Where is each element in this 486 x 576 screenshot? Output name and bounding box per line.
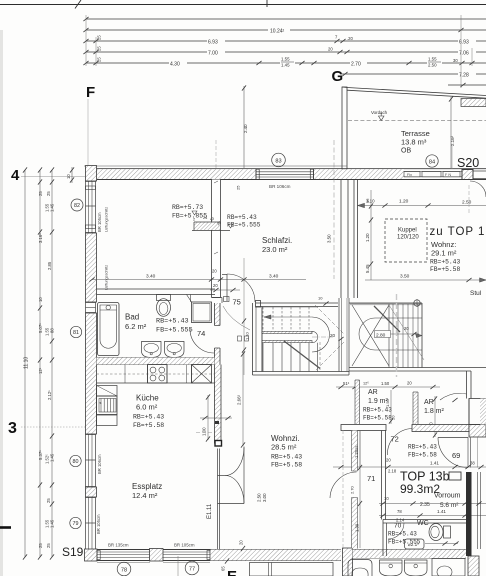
svg-text:5.37⁵: 5.37⁵ xyxy=(38,450,43,460)
door 74 Bad xyxy=(190,329,214,353)
stair1 lower flight treads xyxy=(262,307,318,372)
position circle 77 xyxy=(185,561,199,575)
svg-text:2.70: 2.70 xyxy=(351,61,361,67)
position circle 81 xyxy=(70,326,81,337)
svg-text:1.55: 1.55 xyxy=(281,57,290,62)
double swing door Essplatz-Wohnz xyxy=(218,447,245,550)
svg-text:71: 71 xyxy=(367,474,375,483)
AR2 door arc xyxy=(440,393,467,402)
thin wall lines right edge xyxy=(478,472,481,549)
left dim chain x25 (11.10) xyxy=(23,167,30,559)
top dimension line 5 (4.30 / 1.55 1.45 / 2.70 / 1.55 2.50 30) xyxy=(83,56,486,68)
top sheet border line xyxy=(0,0,486,9)
svg-text:20: 20 xyxy=(407,381,412,386)
svg-text:10: 10 xyxy=(384,496,389,501)
svg-text:G: G xyxy=(332,68,344,85)
svg-text:E: E xyxy=(227,568,237,576)
stair2 axis dashed xyxy=(396,294,398,377)
svg-text:10: 10 xyxy=(38,297,43,302)
Schlafzi labels xyxy=(262,236,292,254)
svg-text:84: 84 xyxy=(429,159,435,165)
dim ticks near door 75 xyxy=(210,283,240,292)
lower unit tub xyxy=(348,560,372,576)
svg-text:3.16⁵: 3.16⁵ xyxy=(38,233,43,243)
terrace dim 2.16 vertical xyxy=(449,96,455,168)
svg-text:1.20: 1.20 xyxy=(399,199,409,205)
boiler with grille xyxy=(97,396,118,415)
svg-text:2.12⁵: 2.12⁵ xyxy=(47,390,52,400)
svg-text:1.45: 1.45 xyxy=(50,519,55,528)
stair2 enclosure xyxy=(349,303,486,371)
Kuppel dashed box xyxy=(385,219,427,262)
svg-text:20: 20 xyxy=(239,540,244,545)
svg-text:RB=+5.43: RB=+5.43 xyxy=(133,414,164,421)
bottom wall pier xyxy=(150,549,164,562)
position circle 84 xyxy=(426,155,438,167)
terrace room label xyxy=(401,129,430,155)
svg-text:E1.11: E1.11 xyxy=(207,503,213,519)
Bad top wall xyxy=(97,289,216,295)
corridor 71 left wall upper segment xyxy=(352,431,358,472)
svg-text:FB=+5.555: FB=+5.555 xyxy=(227,222,261,229)
svg-text:AR: AR xyxy=(368,389,378,396)
step tiny dims xyxy=(193,216,222,226)
svg-text:28.5 m²: 28.5 m² xyxy=(271,443,297,452)
left wall pier block xyxy=(86,487,97,497)
dim line y467 TOP13b xyxy=(333,458,486,474)
svg-text:S19: S19 xyxy=(62,545,84,559)
bathtub xyxy=(98,303,120,356)
kitchen counter top row xyxy=(97,365,215,384)
E111 rotated label xyxy=(207,503,213,519)
svg-text:BR 106cm: BR 106cm xyxy=(269,184,291,189)
extension line column x461 xyxy=(460,15,462,88)
svg-text:4: 4 xyxy=(11,167,20,184)
svg-text:RB=+5.43: RB=+5.43 xyxy=(156,318,189,326)
terrace dashed line (Vordach outline) xyxy=(348,120,486,122)
small pier rect near Vorraum xyxy=(449,472,461,480)
extension line x244 corridor xyxy=(238,258,249,375)
extension line column x96 xyxy=(95,37,97,66)
svg-text:29.1 m²: 29.1 m² xyxy=(431,249,457,258)
svg-text:3: 3 xyxy=(8,420,17,437)
svg-text:77: 77 xyxy=(189,566,195,572)
svg-text:2.85: 2.85 xyxy=(47,261,52,270)
svg-text:.20: .20 xyxy=(347,36,353,41)
svg-text:82: 82 xyxy=(74,203,80,209)
dim line y280 (3.50) xyxy=(365,274,486,283)
svg-text:7.06: 7.06 xyxy=(459,50,469,56)
svg-text:F N: F N xyxy=(445,173,451,177)
solid dark wall right (shaft) xyxy=(466,472,472,556)
axis dash x343 lower xyxy=(342,430,344,548)
stair2 walking loop xyxy=(359,318,422,350)
svg-text:20: 20 xyxy=(330,333,336,338)
left dim chain x52 xyxy=(45,167,55,559)
stair1 dashed diagonals xyxy=(315,305,344,372)
top wall fix windows xyxy=(404,172,462,178)
Kueche labels xyxy=(133,394,164,430)
svg-text:2.35: 2.35 xyxy=(420,502,430,508)
svg-text:1.50: 1.50 xyxy=(385,398,390,407)
Schlafzi bottom dim line xyxy=(89,269,306,282)
lower unit basin 1 xyxy=(380,560,403,576)
svg-text:S20: S20 xyxy=(457,156,479,170)
AR zone top dim line y387 xyxy=(336,381,440,390)
position circle 82 xyxy=(71,199,83,211)
svg-text:RB=+5.43: RB=+5.43 xyxy=(408,444,437,451)
bottom wall pier tall (x343) xyxy=(343,548,353,576)
stair1 upper flight dashed treads xyxy=(262,307,318,331)
grid row 3 dotted line xyxy=(21,426,96,428)
svg-text:Fix: Fix xyxy=(407,173,412,177)
svg-text:1.45: 1.45 xyxy=(50,203,55,212)
svg-text:F: F xyxy=(86,84,95,101)
svg-text:RB=+5.43: RB=+5.43 xyxy=(271,454,302,461)
top exterior wall band xyxy=(85,169,486,180)
svg-text:75: 75 xyxy=(233,298,241,307)
svg-text:2.50: 2.50 xyxy=(257,493,262,502)
svg-text:FB=+5.58: FB=+5.58 xyxy=(408,452,437,459)
stair2 thick cut diagonal xyxy=(374,306,400,332)
svg-text:RB=+5.43: RB=+5.43 xyxy=(430,259,460,266)
svg-text:10: 10 xyxy=(66,174,71,179)
section mark S19 xyxy=(62,545,84,559)
svg-text:2.50: 2.50 xyxy=(462,200,472,206)
Bad vent diagonal xyxy=(187,295,192,303)
svg-text:1.50: 1.50 xyxy=(381,381,390,386)
WC toilet xyxy=(429,524,451,541)
svg-text:3.40: 3.40 xyxy=(146,274,156,280)
door 75 Schlafzi entry xyxy=(222,274,255,302)
svg-text:1.8 m²: 1.8 m² xyxy=(424,408,445,415)
svg-text:10: 10 xyxy=(318,296,323,301)
basin 2 Bad xyxy=(165,342,185,358)
svg-text:88: 88 xyxy=(50,328,55,333)
svg-text:25: 25 xyxy=(38,543,43,548)
Essplatz labels xyxy=(132,482,162,500)
door 72 RB FB labels xyxy=(408,444,437,459)
bottom wall hatch Wohnz segment xyxy=(210,550,341,561)
corridor 71 left wall lower segment xyxy=(352,498,358,549)
svg-text:⌀2.1⁰: ⌀2.1⁰ xyxy=(408,542,419,547)
svg-text:74: 74 xyxy=(197,329,205,338)
stair1 top wall xyxy=(256,301,339,308)
svg-text:FB=+5.58: FB=+5.58 xyxy=(133,422,164,429)
svg-text:3.50: 3.50 xyxy=(327,234,332,243)
svg-text:1.55: 1.55 xyxy=(428,57,437,62)
fridge drawer with diagonal xyxy=(97,386,118,397)
AR1 labels xyxy=(363,389,392,422)
svg-text:120/120: 120/120 xyxy=(397,235,419,241)
lower unit basin 2 xyxy=(405,560,428,576)
top dimension line 4 (7.00 / 20 / 7.06) xyxy=(83,47,486,57)
svg-text:51⁶: 51⁶ xyxy=(343,381,350,386)
svg-text:BR 105cm: BR 105cm xyxy=(174,543,195,548)
svg-text:12⁵: 12⁵ xyxy=(38,367,43,374)
stair2 dim 2.80 with box xyxy=(375,326,423,338)
svg-text:FB=+5.58: FB=+5.58 xyxy=(271,462,302,469)
corridor-Bad wall upper piece xyxy=(215,303,221,326)
AR vertical dim x391 xyxy=(385,390,396,424)
grid column label F xyxy=(86,84,95,101)
basin 1 Bad xyxy=(142,342,162,358)
stair1 walking line with arrow xyxy=(264,315,312,319)
svg-text:FB=+5.855: FB=+5.855 xyxy=(172,213,207,220)
grid column label G xyxy=(332,68,348,85)
door 69 jamb lines xyxy=(468,438,478,468)
zu TOP1 room data xyxy=(430,240,460,273)
door 69 xyxy=(438,438,468,468)
svg-text:1.10: 1.10 xyxy=(245,331,250,340)
stove 4 burners xyxy=(148,365,168,384)
svg-text:65: 65 xyxy=(221,566,226,571)
svg-text:2.18: 2.18 xyxy=(388,469,397,474)
position circle 79 xyxy=(70,517,81,528)
svg-text:s: s xyxy=(100,401,102,405)
svg-text:20: 20 xyxy=(212,269,217,274)
svg-text:13.8 m³: 13.8 m³ xyxy=(401,138,427,147)
black margin tick bottom left xyxy=(0,526,11,529)
svg-text:25: 25 xyxy=(97,35,102,40)
svg-text:25: 25 xyxy=(354,445,359,450)
svg-text:1.41: 1.41 xyxy=(430,461,439,466)
walking line through door 75 xyxy=(223,306,250,330)
left wall window W4 (Essplatz BR105) xyxy=(86,497,102,549)
svg-text:3.50: 3.50 xyxy=(400,274,410,280)
left wall hatch segment B xyxy=(86,313,97,434)
stair1 bottom wall xyxy=(253,372,350,376)
bottom right wall hatch to edge xyxy=(468,556,479,576)
svg-text:WC: WC xyxy=(417,520,429,527)
terrace left wall xyxy=(342,87,347,170)
svg-text:2.66⁵: 2.66⁵ xyxy=(237,394,242,405)
section mark S20 xyxy=(457,156,479,170)
svg-text:69: 69 xyxy=(452,451,460,460)
svg-text:25: 25 xyxy=(46,191,51,196)
left wall window W1 (Schlafzi BR105) xyxy=(86,181,96,233)
RB FB labels right of wall xyxy=(227,214,261,229)
Bad labels xyxy=(125,313,193,335)
Wohnz door arc from corridor 71 xyxy=(330,472,357,498)
svg-text:1.41: 1.41 xyxy=(437,509,446,514)
wall step detail with hatch near RB text xyxy=(192,222,230,231)
stair1 left wall xyxy=(253,303,263,375)
dim line y515 xyxy=(379,509,486,523)
stair1 flight edge bands xyxy=(262,331,318,342)
svg-text:RB=+5.73: RB=+5.73 xyxy=(172,204,203,211)
grid row label 3 xyxy=(8,420,17,437)
lower unit right counter xyxy=(432,559,465,576)
AR bottom wall band left xyxy=(341,425,386,431)
svg-text:81: 81 xyxy=(73,330,79,336)
lower unit left vertical dim line xyxy=(178,556,229,576)
svg-text:20: 20 xyxy=(404,326,409,331)
wall between 71 and 72 corridors xyxy=(382,431,386,520)
position circle 83 xyxy=(272,153,286,167)
WC left wall xyxy=(383,520,387,557)
dim line y503 xyxy=(379,496,486,508)
dishwasher X box xyxy=(192,365,212,384)
svg-text:10.24²: 10.24² xyxy=(270,28,285,34)
svg-text:Schlafzi.: Schlafzi. xyxy=(262,236,292,245)
terrace dim 2.40 vertical xyxy=(242,85,248,168)
WC dim line small xyxy=(425,541,459,545)
svg-text:BR 135cm: BR 135cm xyxy=(108,543,129,548)
svg-text:25: 25 xyxy=(46,498,51,503)
interior wall Schlafzi-corridor x211-221 xyxy=(212,180,221,298)
svg-text:38: 38 xyxy=(470,461,475,466)
WC top wall xyxy=(383,520,466,524)
svg-text:80: 80 xyxy=(73,459,79,465)
left wall window W2 (Bad) xyxy=(86,302,96,313)
svg-text:Lüftungsschlitz: Lüftungsschlitz xyxy=(105,207,109,232)
left wall rotated window texts xyxy=(97,207,109,232)
corridor 71 inner dim xyxy=(354,431,361,468)
axis dash at S20 xyxy=(451,145,453,169)
washer box in niche xyxy=(192,302,212,323)
Wohnz labels xyxy=(271,434,302,469)
right side wall upper thin xyxy=(467,371,472,399)
svg-text:3.00: 3.00 xyxy=(262,493,267,502)
bottom wall window W6 (BR105) xyxy=(163,543,210,560)
Bad-Kueche divider wall xyxy=(97,358,215,365)
WC basin with label xyxy=(405,539,425,549)
svg-text:FB=+5.555: FB=+5.555 xyxy=(156,327,193,335)
grid axis F vertical line xyxy=(87,99,89,165)
svg-text:25: 25 xyxy=(46,543,51,548)
svg-text:4.30: 4.30 xyxy=(170,61,180,67)
svg-text:6.93: 6.93 xyxy=(459,39,469,45)
svg-text:Küche: Küche xyxy=(136,394,159,403)
svg-text:78: 78 xyxy=(121,567,127,573)
top dimension line 3 (6.93 / 7 20 / 6.93) xyxy=(83,35,486,46)
svg-text:RB=+5.43: RB=+5.43 xyxy=(388,531,417,538)
eave line above top wall xyxy=(84,165,347,167)
bottom wall right section xyxy=(353,550,467,559)
dim 1.00 door Kueche xyxy=(196,394,232,441)
svg-text:6.2 m²: 6.2 m² xyxy=(125,322,147,331)
left wall window W3 (Kueche BR106) xyxy=(86,434,103,487)
svg-text:16: 16 xyxy=(365,198,370,203)
grid row label 4 xyxy=(11,167,20,184)
svg-text:20: 20 xyxy=(328,47,333,52)
svg-text:BR 105cm: BR 105cm xyxy=(96,514,101,534)
left dim chain x72 short xyxy=(66,167,74,183)
AR bottom wall band mid xyxy=(412,425,469,432)
right niche at x469 xyxy=(469,399,486,425)
svg-text:Stul: Stul xyxy=(470,290,482,297)
svg-text:25: 25 xyxy=(97,57,102,62)
svg-text:Lüftungsschlitz: Lüftungsschlitz xyxy=(105,265,109,290)
electric mark FM on wall xyxy=(215,421,219,424)
bottom sill lines xyxy=(97,562,210,564)
svg-text:RB=+5.43: RB=+5.43 xyxy=(227,214,257,221)
door swing at top right (terrace access) xyxy=(470,181,486,197)
double wall right of Schlafzi x341-357 xyxy=(341,180,358,298)
Vordach label and flag xyxy=(371,110,388,121)
top dimension line 1 xyxy=(83,17,486,21)
svg-text:6.93: 6.93 xyxy=(208,39,218,45)
TOP 13b main label xyxy=(400,470,450,497)
svg-text:11.10: 11.10 xyxy=(24,357,30,369)
Essplatz-Wohnz wall x215-221 xyxy=(215,365,222,444)
svg-text:2.40: 2.40 xyxy=(243,124,248,133)
position circle 80 xyxy=(70,455,81,466)
axis line between F and G (dashed) xyxy=(215,140,217,168)
dim x243 vertical 2.66 xyxy=(237,351,246,447)
lower unit kitchen counter xyxy=(250,563,334,576)
svg-text:78: 78 xyxy=(397,509,402,514)
WC door 70 arc xyxy=(388,523,404,539)
zu TOP 1 label xyxy=(430,226,486,238)
svg-text:1.00: 1.00 xyxy=(202,427,207,436)
svg-text:25: 25 xyxy=(38,191,43,196)
corridor dim line x360 xyxy=(354,431,362,549)
stair1 U-turn walking arc xyxy=(312,317,333,352)
rotated 25 labels of top block xyxy=(97,35,102,62)
stair2 X diagonals xyxy=(352,305,424,366)
left dim chain x40 xyxy=(38,167,43,559)
svg-text:2.50: 2.50 xyxy=(428,63,437,68)
stair2 top edge thick gray xyxy=(349,303,422,304)
extension line column x472 xyxy=(471,48,473,66)
AR2 labels xyxy=(424,399,445,415)
stair2 treads xyxy=(389,304,418,368)
extension line column x86 xyxy=(85,15,87,66)
left exterior wall - corner block top xyxy=(86,166,97,182)
svg-text:Vordach: Vordach xyxy=(371,110,388,115)
svg-text:5.6 m²: 5.6 m² xyxy=(440,502,459,509)
svg-text:6.0 m²: 6.0 m² xyxy=(136,403,158,412)
toilet Bad xyxy=(157,295,171,317)
top dimension line 2 (10.24) xyxy=(83,25,486,34)
svg-text:FB=+5.58: FB=+5.58 xyxy=(363,415,392,422)
grid row 4 line xyxy=(21,176,85,178)
svg-text:3.40: 3.40 xyxy=(269,274,279,280)
AR bottom wall right hatch xyxy=(469,425,486,438)
top wall right window to edge xyxy=(473,171,486,179)
svg-text:70: 70 xyxy=(394,523,402,530)
svg-text:5.45: 5.45 xyxy=(365,264,370,273)
dim 20 bottom of wall xyxy=(239,540,246,551)
svg-text:AR: AR xyxy=(424,399,434,406)
Schlafzi axis dashed x334 xyxy=(236,140,335,279)
top wall pier block right xyxy=(462,170,473,180)
svg-text:2.80: 2.80 xyxy=(376,332,386,338)
svg-text:Kuppel: Kuppel xyxy=(398,228,417,234)
svg-text:83: 83 xyxy=(275,158,281,164)
top dimension line 7 short xyxy=(448,83,486,87)
svg-text:7.28: 7.28 xyxy=(459,72,469,78)
label 71 xyxy=(367,474,375,483)
svg-text:20: 20 xyxy=(391,415,396,420)
bold grid letter at bottom edge (clipped) xyxy=(227,568,237,576)
svg-text:5.07⁵: 5.07⁵ xyxy=(38,323,43,333)
svg-text:20: 20 xyxy=(213,283,218,288)
svg-text:1.45: 1.45 xyxy=(281,63,290,68)
door 72 xyxy=(387,429,412,456)
wall end cap xyxy=(215,441,222,447)
AR1 left wall hatched xyxy=(355,380,360,424)
bottom exterior wall band xyxy=(97,550,341,561)
Stuetze label xyxy=(470,290,482,297)
svg-text:FB=+5.58: FB=+5.58 xyxy=(430,266,460,273)
position circle 78 xyxy=(117,562,131,576)
svg-text:BR 105cm: BR 105cm xyxy=(97,212,102,232)
dim 20 at stair right wall xyxy=(245,296,344,342)
zu TOP1 vertical dim chain xyxy=(365,190,373,280)
